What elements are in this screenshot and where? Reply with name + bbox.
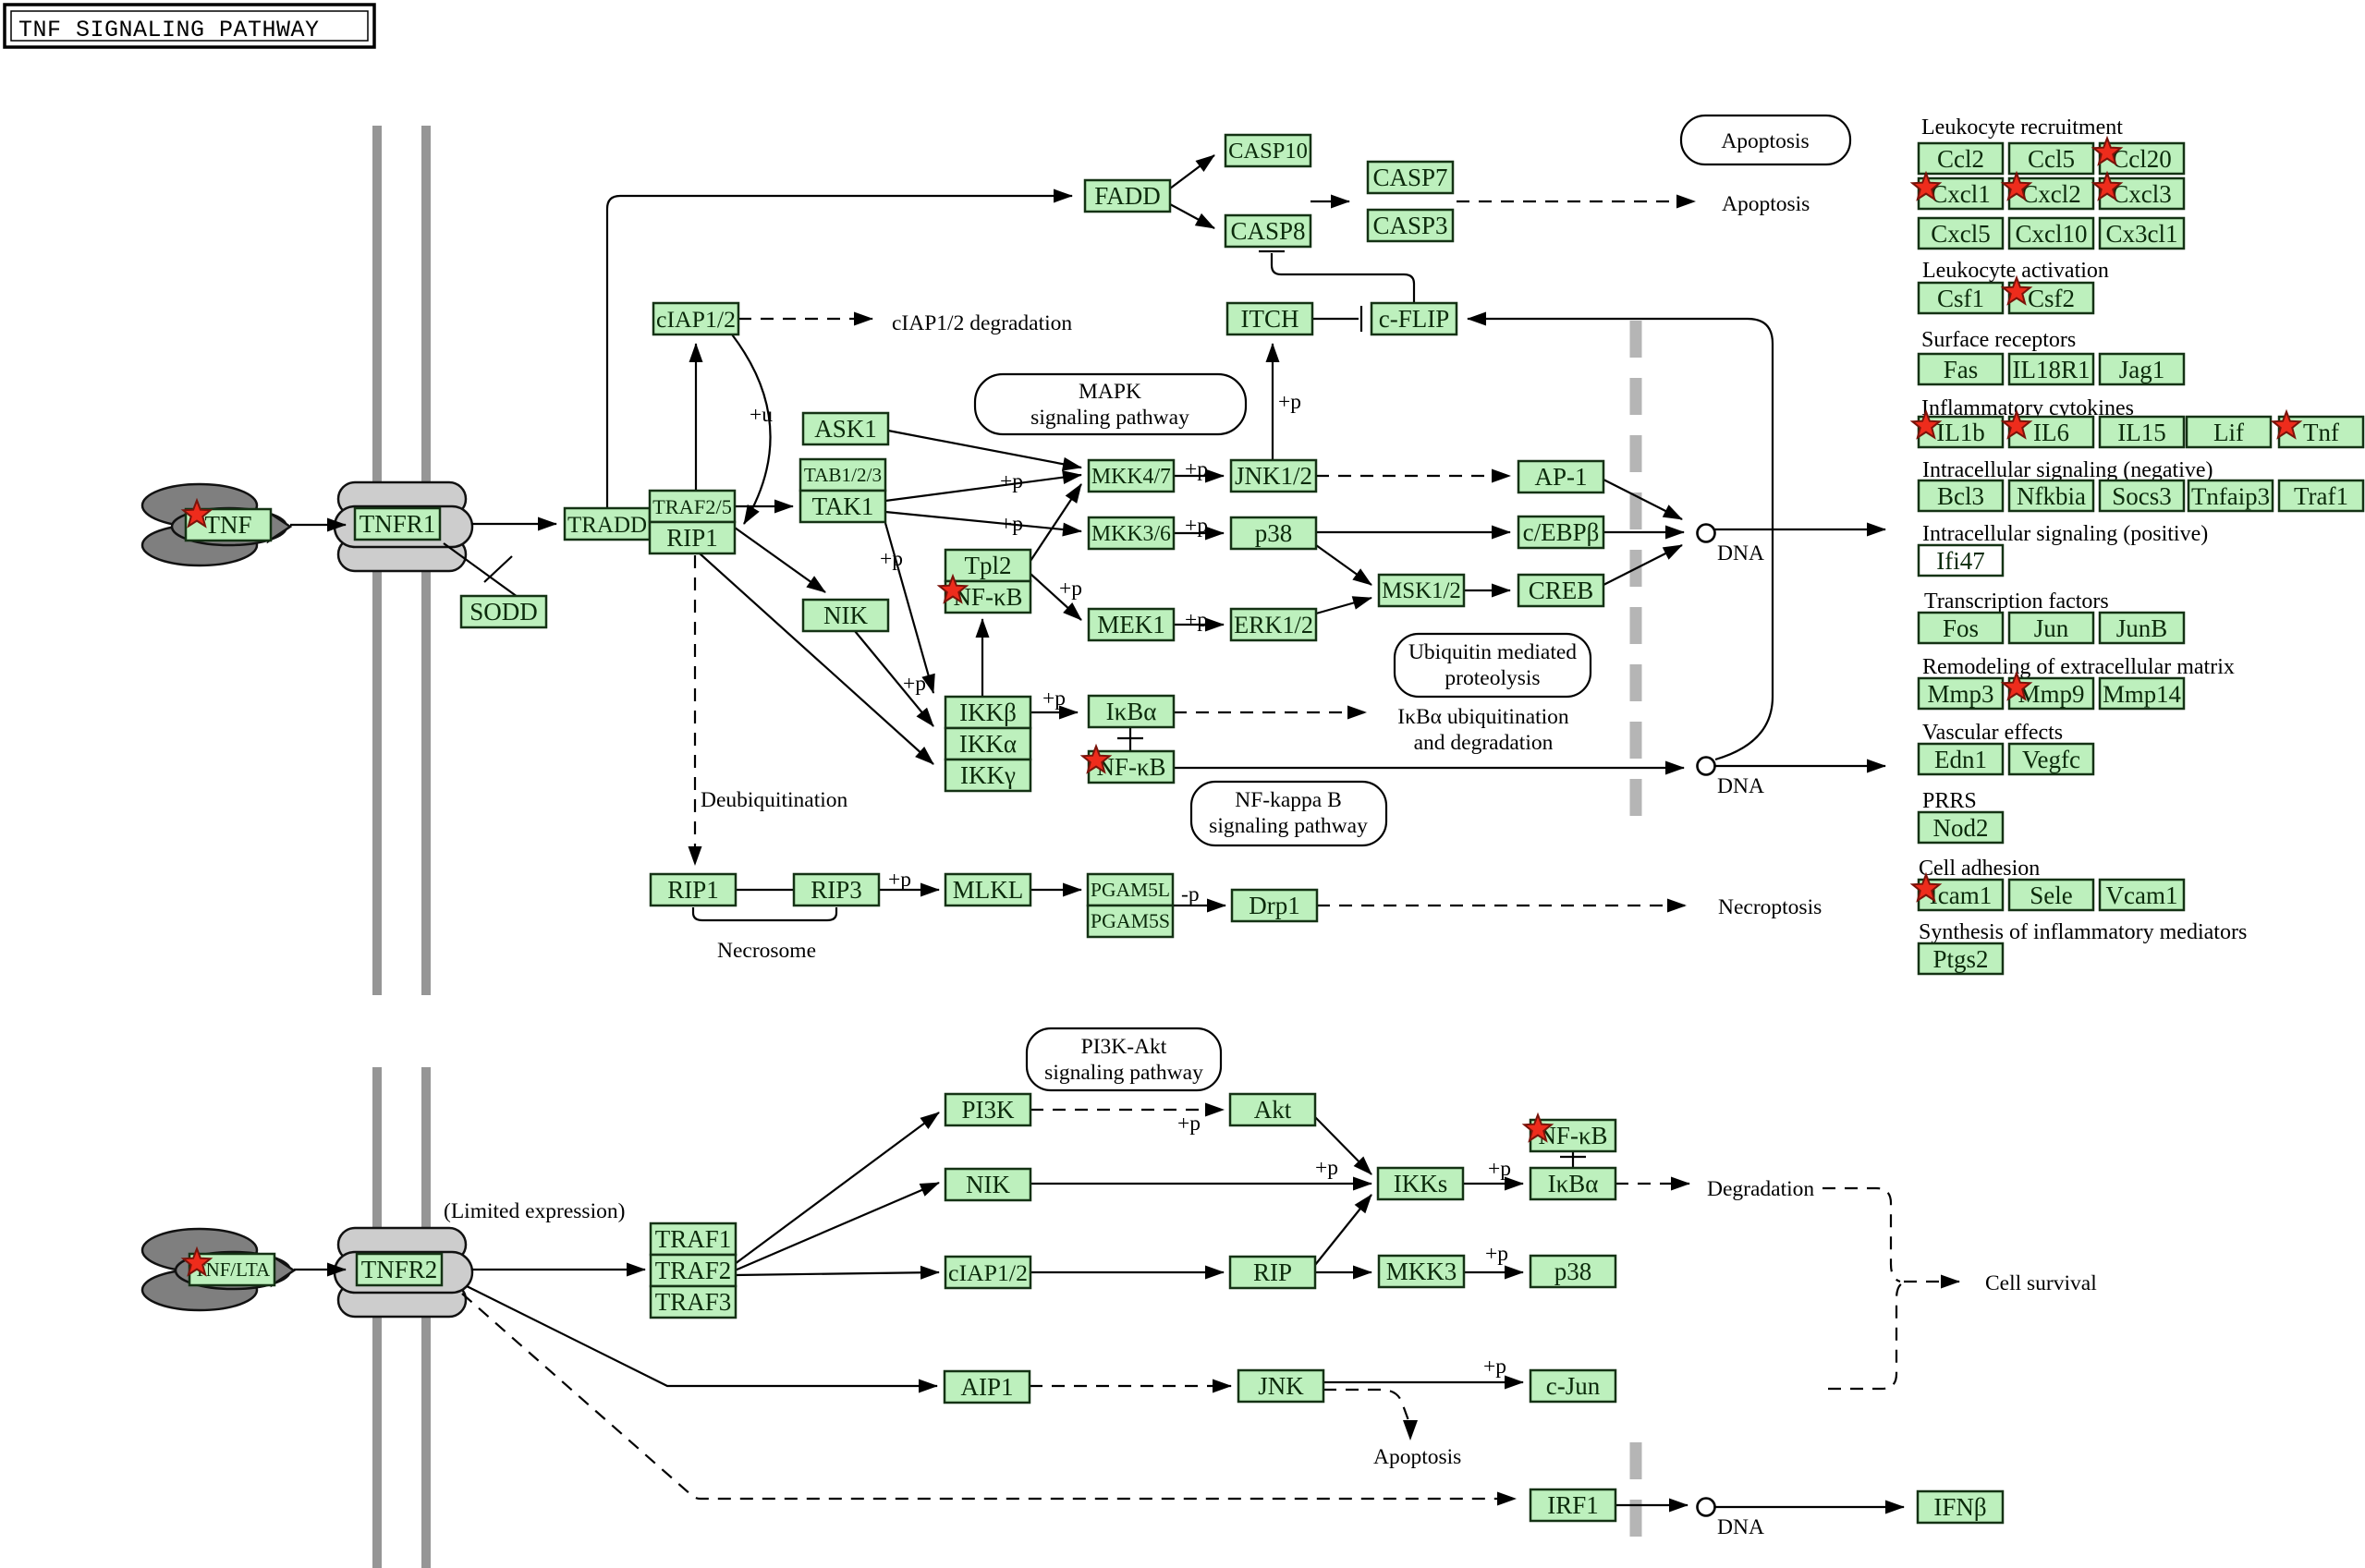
cell membrane lower bar 1 <box>372 1067 382 1568</box>
gene box p38 <box>1231 517 1316 549</box>
svg-text:Socs3: Socs3 <box>2112 482 2172 510</box>
svg-text:IκBα ubiquitination: IκBα ubiquitination <box>1397 705 1569 729</box>
svg-text:TRAF3: TRAF3 <box>655 1288 732 1316</box>
tee NF-kB lower to IkBa lower <box>1572 1151 1574 1167</box>
svg-text:Transcription factors: Transcription factors <box>1924 590 2109 614</box>
svg-text:TAK1: TAK1 <box>812 492 874 520</box>
svg-text:TRADD: TRADD <box>567 513 647 538</box>
star Mmp9 <box>2003 674 2030 699</box>
gene box JunB <box>2100 613 2184 643</box>
gene box Cxcl1 <box>1919 178 2003 209</box>
svg-text:Tnf: Tnf <box>2303 419 2339 446</box>
svg-text:Apoptosis: Apoptosis <box>1721 129 1809 153</box>
gene box Mmp3 <box>1919 678 2003 709</box>
gene box Socs3 <box>2100 480 2184 511</box>
svg-text:Fas: Fas <box>1944 356 1979 383</box>
gene box p38 lower <box>1530 1256 1615 1287</box>
svg-text:IL18R1: IL18R1 <box>2013 356 2091 383</box>
wire NF-kB mid to DNA2 <box>1174 767 1684 769</box>
gene box IKKs <box>1378 1168 1463 1199</box>
gene box IRF1 <box>1530 1489 1615 1521</box>
wire cIAP to RIP <box>1030 1271 1224 1273</box>
svg-text:c-Jun: c-Jun <box>1546 1372 1601 1400</box>
gene box Akt <box>1230 1094 1315 1125</box>
star NF-kB lower <box>1524 1115 1551 1141</box>
svg-text:Tnfaip3: Tnfaip3 <box>2191 482 2270 510</box>
star Tnf <box>2273 412 2299 438</box>
gene box MEK1 <box>1089 609 1174 640</box>
svg-text:p38: p38 <box>1255 519 1293 547</box>
wire MSK1/2 to CREB <box>1464 590 1510 591</box>
star Cxcl3 <box>2093 174 2120 200</box>
gene box MKK4/7 <box>1089 460 1174 492</box>
wire FADD to CASP8 <box>1170 204 1214 228</box>
TNF ligand ellipse top <box>142 484 257 527</box>
gene box cIAP1/2 lower <box>945 1257 1030 1288</box>
wire Tpl2 to MEK1 <box>1030 574 1081 620</box>
svg-text:Fos: Fos <box>1943 614 1979 642</box>
svg-text:NF-kappa B: NF-kappa B <box>1235 788 1342 812</box>
gene box IkBa upper <box>1089 696 1174 727</box>
wire cIAP1/2 dashed degradation <box>738 318 872 320</box>
gene box TNFR2 <box>357 1254 442 1285</box>
wire JNK dashed to apoptosis <box>1323 1390 1409 1423</box>
gene box Tnfaip3 <box>2188 480 2273 511</box>
inhibit cross on SODD wire <box>484 556 512 582</box>
star IL1b <box>1912 412 1939 438</box>
star Ccl20 <box>2093 139 2120 164</box>
star NF-kB mid <box>1082 747 1109 772</box>
wire TNF to TNFR1 <box>290 524 346 526</box>
svg-text:Drp1: Drp1 <box>1249 892 1300 919</box>
wire MEK1 to ERK1/2 <box>1174 624 1224 626</box>
wire PI3K dashed to Akt <box>1030 1109 1224 1111</box>
gene box RIP1 lower <box>651 874 736 906</box>
svg-text:Edn1: Edn1 <box>1934 746 1987 773</box>
svg-text:TRAF2/5: TRAF2/5 <box>652 495 732 518</box>
wire Tpl2 to MKK4/7 <box>1030 484 1081 561</box>
nuclear membrane dashed bar upper <box>1630 321 1642 825</box>
wire TAK1 to IKKb <box>885 523 933 693</box>
cell membrane upper bar 1 <box>372 126 382 995</box>
pathway label Apoptosis box <box>1681 115 1850 164</box>
svg-text:IKKβ: IKKβ <box>959 699 1017 726</box>
gene box IKKb <box>945 697 1030 728</box>
svg-text:Ccl2: Ccl2 <box>1937 145 1984 173</box>
svg-text:+u: +u <box>750 403 773 427</box>
wire TRAF2 to NIK lower <box>735 1183 939 1270</box>
TNF/LTA ligand ellipse bottom <box>142 1270 257 1310</box>
svg-text:TRAF1: TRAF1 <box>655 1225 732 1253</box>
svg-text:ERK1/2: ERK1/2 <box>1234 612 1313 638</box>
wire TAK1 to MKK4/7 <box>885 475 1081 501</box>
wire p38 to MSK1/2 <box>1316 545 1371 585</box>
svg-text:Deubiquitination: Deubiquitination <box>701 788 848 812</box>
gene box NIK lower <box>945 1169 1030 1200</box>
gene box TRADD <box>565 508 650 540</box>
wire IkBa dashed to degradation <box>1615 1183 1689 1185</box>
svg-text:Nfkbia: Nfkbia <box>2017 482 2086 510</box>
gene box PI3K <box>945 1094 1030 1125</box>
svg-text:PRRS: PRRS <box>1922 789 1977 813</box>
svg-text:Cxcl3: Cxcl3 <box>2112 180 2172 208</box>
svg-text:PI3K: PI3K <box>961 1096 1015 1124</box>
gene box Jun <box>2009 613 2093 643</box>
wire CREB to DNA <box>1603 545 1682 585</box>
nuclear membrane dashed bar lower <box>1630 1442 1642 1549</box>
gene box MKK3 lower <box>1379 1256 1464 1287</box>
svg-text:MKK3/6: MKK3/6 <box>1091 522 1171 546</box>
wire TRAF2 to PI3K <box>735 1112 939 1264</box>
gene box Edn1 <box>1919 744 2003 774</box>
svg-text:Cxcl2: Cxcl2 <box>2021 180 2081 208</box>
gene box JNK1/2 <box>1231 460 1316 492</box>
svg-text:TNFR1: TNFR1 <box>360 510 436 538</box>
star TNF upper <box>183 501 210 527</box>
wire RIP1-RIP3 <box>736 889 794 891</box>
wire DNA1 to gene lists <box>1714 529 1885 530</box>
gene box IL18R1 <box>2009 354 2093 384</box>
svg-text:TNFR2: TNFR2 <box>361 1256 438 1283</box>
svg-text:+p: +p <box>888 868 911 892</box>
svg-text:proteolysis: proteolysis <box>1445 666 1540 690</box>
wire bracket to cell survival <box>1904 1281 1959 1282</box>
gene box Cxcl5 <box>1919 218 2003 249</box>
svg-text:AIP1: AIP1 <box>960 1373 1013 1401</box>
svg-text:cIAP1/2: cIAP1/2 <box>656 306 736 333</box>
svg-text:+p: +p <box>1483 1355 1506 1379</box>
TNF ligand ellipse bottom <box>142 525 257 565</box>
svg-text:signaling pathway: signaling pathway <box>1044 1061 1203 1085</box>
gene box c-Jun <box>1530 1370 1615 1402</box>
svg-text:Ccl20: Ccl20 <box>2112 145 2172 173</box>
wire AP-1 to DNA <box>1603 480 1682 519</box>
gene box NIK upper <box>803 600 888 631</box>
gene box PGAM5L <box>1088 874 1173 906</box>
svg-text:SODD: SODD <box>469 598 538 626</box>
pathway label PI3K-Akt <box>1027 1028 1221 1090</box>
svg-text:CREB: CREB <box>1529 577 1594 604</box>
star NF-kB upper <box>939 577 966 602</box>
wire TRAF2/5 up to cIAP1/2 <box>695 344 697 490</box>
svg-text:MAPK: MAPK <box>1079 380 1141 404</box>
svg-text:+p: +p <box>880 547 903 571</box>
svg-text:+p: +p <box>1315 1156 1338 1180</box>
wire MKK3 to p38 lower <box>1464 1271 1523 1273</box>
svg-text:Surface receptors: Surface receptors <box>1921 328 2076 352</box>
svg-text:+p: +p <box>1185 514 1208 538</box>
gene box Cxcl2 <box>2009 178 2093 209</box>
DNA node 3 <box>1698 1499 1715 1516</box>
gene box PGAM5S <box>1088 906 1173 937</box>
wire IkBa dashed to ubiquitination <box>1174 711 1366 713</box>
wire c/EBPb to DNA <box>1603 531 1684 533</box>
wire FADD to CASP10 <box>1170 155 1214 188</box>
wire RIP1 to NIK <box>735 528 825 592</box>
TNFR1 receptor capsule middle <box>335 506 472 547</box>
svg-text:Necrosome: Necrosome <box>717 939 816 963</box>
gene box TNF <box>186 509 271 541</box>
wire TRADD up to FADD <box>607 196 1072 508</box>
gene box MKK3/6 <box>1089 517 1174 549</box>
svg-text:Mmp3: Mmp3 <box>1927 680 1993 708</box>
gene box Nod2 <box>1919 812 2003 843</box>
gene box TAK1 <box>800 491 885 522</box>
wire MLKL to PGAM5 <box>1030 889 1081 891</box>
svg-text:Ubiquitin mediated: Ubiquitin mediated <box>1408 640 1577 664</box>
svg-text:c/EBPβ: c/EBPβ <box>1523 518 1600 546</box>
svg-text:RIP1: RIP1 <box>666 524 718 552</box>
svg-text:+p: +p <box>1485 1242 1508 1266</box>
gene box TAB1/2/3 <box>800 459 885 491</box>
gene box Sele <box>2009 880 2093 910</box>
gene box TNFR1 <box>355 508 440 540</box>
svg-text:PGAM5L: PGAM5L <box>1091 879 1170 901</box>
wire JNK to c-Jun <box>1323 1381 1523 1383</box>
TNFR2 receptor capsule middle <box>335 1252 472 1293</box>
svg-text:c-FLIP: c-FLIP <box>1379 305 1450 333</box>
wire ITCH to c-FLIP <box>1312 318 1359 320</box>
star IL6 <box>2003 412 2030 438</box>
svg-text:Tpl2: Tpl2 <box>965 552 1012 579</box>
gene box Mmp9 <box>2009 678 2093 709</box>
svg-text:Mmp14: Mmp14 <box>2103 680 2181 708</box>
gene box Bcl3 <box>1919 480 2003 511</box>
gene box NF-kB lower <box>1530 1120 1615 1151</box>
wire Drp1 dashed to necroptosis <box>1317 905 1686 906</box>
svg-text:IKKs: IKKs <box>1394 1170 1448 1197</box>
svg-text:IL6: IL6 <box>2033 419 2069 446</box>
svg-text:TNF SIGNALING PATHWAY: TNF SIGNALING PATHWAY <box>18 17 320 43</box>
TNF/LTA ligand bullet <box>176 1252 290 1289</box>
wire p38 to c/EBPb <box>1316 531 1510 533</box>
svg-text:PI3K-Akt: PI3K-Akt <box>1081 1035 1167 1059</box>
wire cIAP1/2 +u curve to RIP1 <box>732 334 771 524</box>
gene box Ifi47 <box>1919 545 2003 576</box>
svg-text:CASP7: CASP7 <box>1372 164 1447 191</box>
svg-text:+p: +p <box>1185 608 1208 632</box>
svg-text:Remodeling of extracellular ma: Remodeling of extracellular matrix <box>1922 655 2235 679</box>
svg-text:Lif: Lif <box>2213 419 2244 446</box>
gene box c/EBPb <box>1518 517 1603 548</box>
gene box Icam1 <box>1919 880 2003 910</box>
wire DNA3 to IFNb <box>1714 1506 1904 1508</box>
gene box Tnf <box>2279 417 2363 447</box>
svg-text:Sele: Sele <box>2030 881 2073 909</box>
wire degradation bracket bottom <box>1828 1282 1904 1389</box>
gene box cIAP1/2 upper <box>653 303 738 334</box>
gene box IFNb <box>1918 1491 2003 1523</box>
svg-text:Akt: Akt <box>1254 1096 1292 1124</box>
gene box ASK1 <box>803 413 888 444</box>
svg-text:CASP10: CASP10 <box>1228 139 1308 164</box>
tee IkBa to NF-kB mid <box>1129 727 1131 750</box>
wire RIP1 to IKKg <box>700 553 933 764</box>
gene box TRAF2 <box>651 1255 736 1286</box>
wire TNFR2 to TRAF2 <box>471 1269 645 1270</box>
gene box Cxcl10 <box>2009 218 2093 249</box>
svg-text:PGAM5S: PGAM5S <box>1091 910 1170 932</box>
wire MKK3/6 to p38 <box>1174 532 1224 534</box>
svg-text:CASP8: CASP8 <box>1230 217 1305 245</box>
svg-text:Cxcl1: Cxcl1 <box>1931 180 1991 208</box>
svg-text:+p: +p <box>1059 577 1082 601</box>
tee bar NF-kB lower <box>1560 1156 1586 1158</box>
gene box ITCH <box>1227 303 1312 334</box>
svg-text:+p: +p <box>1000 512 1023 536</box>
wire degradation bracket top <box>1823 1188 1900 1282</box>
svg-text:JNK: JNK <box>1258 1372 1304 1400</box>
TNFR2 receptor capsule bottom <box>338 1283 466 1317</box>
svg-text:Cxcl10: Cxcl10 <box>2016 220 2088 248</box>
gene box TRAF3 <box>651 1286 736 1318</box>
wire c-FLIP inhibits CASP8 <box>1272 253 1414 302</box>
TNFR2 receptor capsule top <box>338 1228 466 1261</box>
svg-text:signaling pathway: signaling pathway <box>1209 814 1368 838</box>
cell membrane upper bar 2 <box>421 126 431 995</box>
gene box CASP10 <box>1225 135 1311 166</box>
svg-text:MLKL: MLKL <box>953 876 1024 904</box>
gene box CREB <box>1518 575 1603 606</box>
svg-text:Cell survival: Cell survival <box>1985 1271 2097 1295</box>
svg-text:+p: +p <box>1177 1112 1201 1136</box>
svg-text:ITCH: ITCH <box>1241 305 1299 333</box>
wire JNK1/2 dashed to AP-1 <box>1316 475 1510 477</box>
svg-text:Jag1: Jag1 <box>2119 356 2165 383</box>
svg-text:cIAP1/2: cIAP1/2 <box>948 1259 1028 1286</box>
svg-text:IκBα: IκBα <box>1106 698 1157 725</box>
gene box JNK <box>1238 1370 1323 1402</box>
svg-text:MEK1: MEK1 <box>1097 611 1165 638</box>
svg-text:+p: +p <box>1278 390 1301 414</box>
gene box Cx3cl1 <box>2100 218 2184 249</box>
gene box AIP1 <box>945 1371 1030 1403</box>
gene box IL6 <box>2009 417 2093 447</box>
star Cxcl2 <box>2003 174 2030 200</box>
svg-text:IFNβ: IFNβ <box>1933 1493 1986 1521</box>
gene box Mmp14 <box>2100 678 2184 709</box>
svg-text:+p: +p <box>1488 1157 1511 1181</box>
wire CASP7 dashed to apoptosis <box>1457 201 1695 202</box>
star Icam1 <box>1912 875 1939 901</box>
svg-text:Cell adhesion: Cell adhesion <box>1919 857 2040 881</box>
wire RIP1 deubiquitination dashed <box>694 555 696 865</box>
svg-text:DNA: DNA <box>1717 774 1764 798</box>
gene box CASP7 <box>1368 162 1453 193</box>
svg-text:RIP3: RIP3 <box>811 876 862 904</box>
gene box Ccl2 <box>1919 143 2003 174</box>
svg-text:IKKα: IKKα <box>959 730 1017 758</box>
wire MKK4/7 to JNK1/2 <box>1174 475 1224 477</box>
wire RIP to IKKs <box>1315 1195 1371 1265</box>
wire IKKb up to NF-kB upper <box>981 619 983 696</box>
svg-text:DNA: DNA <box>1717 541 1764 565</box>
wire PGAM5 to Drp1 <box>1173 905 1225 906</box>
svg-text:and degradation: and degradation <box>1414 731 1554 755</box>
svg-text:Vcam1: Vcam1 <box>2106 881 2178 909</box>
svg-text:Ccl5: Ccl5 <box>2028 145 2075 173</box>
svg-text:signaling pathway: signaling pathway <box>1030 406 1189 430</box>
svg-text:DNA: DNA <box>1717 1515 1764 1539</box>
gene box Fos <box>1919 613 2003 643</box>
gene box IKKa <box>945 728 1030 760</box>
TNF ligand bullet <box>172 508 286 545</box>
gene box IL15 <box>2100 417 2184 447</box>
gene box RIP lower <box>1230 1257 1315 1288</box>
svg-text:Cxcl5: Cxcl5 <box>1931 220 1991 248</box>
gene box SODD <box>461 596 546 627</box>
svg-text:Apoptosis: Apoptosis <box>1373 1445 1461 1469</box>
wire TNFR2 to AIP1 <box>467 1286 937 1386</box>
svg-text:Apoptosis: Apoptosis <box>1722 192 1810 216</box>
gene box Ccl20 <box>2100 143 2184 174</box>
gene box IKKg <box>945 760 1030 791</box>
svg-text:-p: -p <box>1181 882 1200 906</box>
svg-text:(Limited expression): (Limited expression) <box>444 1199 625 1223</box>
pathway label Ubiquitin <box>1395 634 1591 697</box>
svg-text:+p: +p <box>1185 457 1208 481</box>
wire TNFR1 to SODD <box>444 543 518 597</box>
tee bar IkBa NF-kB mid <box>1117 737 1143 739</box>
wire TNFR1 to TRADD <box>471 523 556 525</box>
gene box Csf1 <box>1919 283 2003 313</box>
svg-text:+p: +p <box>1000 469 1023 493</box>
tee bar at c-FLIP <box>1360 306 1362 332</box>
svg-text:cIAP1/2 degradation: cIAP1/2 degradation <box>892 311 1072 335</box>
svg-text:Intracellular signaling (negat: Intracellular signaling (negative) <box>1922 458 2213 482</box>
wire DNA2 feedback to c-FLIP <box>1468 319 1773 760</box>
star Csf2 <box>2003 278 2030 304</box>
gene box TRAF2/5 <box>650 491 735 522</box>
gene box TRAF1 <box>651 1223 736 1255</box>
svg-text:RIP: RIP <box>1253 1258 1292 1286</box>
wire ASK1 to MKK4/7 <box>888 431 1081 468</box>
pathway label NF-kappaB <box>1191 782 1386 845</box>
gene box Vegfc <box>2009 744 2093 774</box>
svg-text:Vegfc: Vegfc <box>2022 746 2080 773</box>
svg-text:Csf1: Csf1 <box>1937 285 1984 312</box>
gene box Cxcl3 <box>2100 178 2184 209</box>
TNFR1 receptor capsule bottom <box>338 538 466 571</box>
wire TNF/LTA to TNFR2 <box>294 1269 346 1270</box>
svg-text:IRF1: IRF1 <box>1547 1491 1599 1519</box>
svg-text:Synthesis of inflammatory medi: Synthesis of inflammatory mediators <box>1919 920 2247 944</box>
svg-text:ASK1: ASK1 <box>814 415 877 443</box>
svg-text:NIK: NIK <box>823 602 868 629</box>
svg-text:Cx3cl1: Cx3cl1 <box>2106 220 2178 248</box>
gene box RIP3 <box>794 874 879 906</box>
svg-text:MKK3: MKK3 <box>1386 1258 1457 1285</box>
wire TAK1 to MKK3/6 <box>885 512 1081 531</box>
gene box Ccl5 <box>2009 143 2093 174</box>
gene box RIP1 <box>650 522 735 553</box>
gene box AP-1 <box>1518 461 1603 492</box>
wire IKKs to IkBa lower <box>1463 1183 1523 1185</box>
gene box Ptgs2 <box>1919 943 2003 974</box>
wire JNK1/2 up to ITCH <box>1272 344 1274 459</box>
wire CASP8 to CASP7/3 <box>1311 201 1349 202</box>
svg-text:NIK: NIK <box>966 1171 1010 1198</box>
svg-text:Necroptosis: Necroptosis <box>1718 895 1822 919</box>
TNF/LTA ligand ellipse top <box>142 1229 257 1271</box>
gene box ERK1/2 <box>1231 609 1316 640</box>
gene box Jag1 <box>2100 354 2184 384</box>
gene box MSK1/2 <box>1379 575 1464 606</box>
svg-text:Intracellular signaling (posit: Intracellular signaling (positive) <box>1922 522 2208 546</box>
svg-text:JunB: JunB <box>2116 614 2168 642</box>
title box <box>5 5 374 47</box>
svg-text:+p: +p <box>1042 687 1066 711</box>
